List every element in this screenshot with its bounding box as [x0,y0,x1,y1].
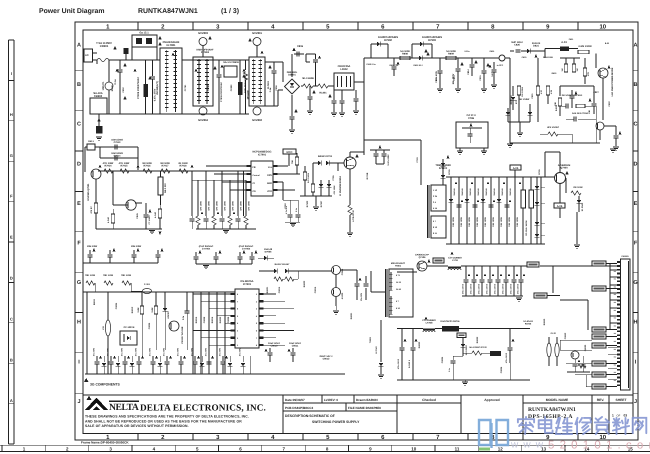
resistor R796 vertical [158,177,163,195]
secondary cap C930 [401,329,403,348]
svg-text:C9015: C9015 [314,286,317,293]
svg-text:PR-23/4L 1N/2W: PR-23/4L 1N/2W [525,220,528,236]
svg-text:I: I [11,71,12,76]
svg-text:RUNTKA847WJN1: RUNTKA847WJN1 [528,407,576,413]
svg-text:1N4148: 1N4148 [264,248,273,251]
svg-text:47u 50V: 47u 50V [148,347,151,356]
capacitor C803 [152,60,154,76]
svg-text:C7913: C7913 [114,141,121,144]
svg-text:470u 16V.3: 470u 16V.3 [477,283,480,294]
svg-text:R9022: R9022 [303,280,306,287]
net label A12V [527,262,539,267]
svg-text:LV.REV: 0: LV.REV: 0 [324,398,338,402]
svg-text:47u 50V: 47u 50V [162,347,165,356]
svg-text:THESE DRAWINGS AND SPECIFICATI: THESE DRAWINGS AND SPECIFICATIONS ARE TH… [85,415,249,419]
secondary cap C933 [452,356,454,360]
svg-text:T9401: T9401 [395,264,402,267]
wire pfc to transformer [364,151,428,153]
svg-text:Power Unit Diagram: Power Unit Diagram [39,8,104,15]
svg-text:470u 16V.3: 470u 16V.3 [461,283,464,294]
svg-text:GE 1/10W: GE 1/10W [519,98,530,101]
svg-text:PCB DS81P/B8CC3: PCB DS81P/B8CC3 [285,406,313,410]
capacitor C812 [439,58,441,70]
svg-text:SALE OF APPARATUS OR DEVICES W: SALE OF APPARATUS OR DEVICES WITHOUT PER… [85,424,189,428]
svg-text:H: H [77,320,81,326]
svg-text:B 7D4R: B 7D4R [375,346,378,354]
svg-text:C831: C831 [531,93,534,99]
svg-text:R9016: R9016 [211,316,214,323]
node terminal E801 [499,55,505,61]
svg-text:C806: C806 [275,85,278,91]
svg-text:C2655: C2655 [341,268,344,275]
svg-text:C815: C815 [479,75,482,81]
wire inter-stage top [182,59,249,61]
varistor RV801 [108,60,110,82]
fusible resistor dark [560,47,569,52]
svg-text:2.2/B 1/10W: 2.2/B 1/10W [578,45,592,48]
svg-text:D802 S1J: D802 S1J [414,64,423,67]
svg-text:R7915: R7915 [120,165,128,168]
svg-text:SHEET: SHEET [616,398,627,402]
svg-text:47u 50V: 47u 50V [120,347,123,356]
secondary resistor R7132 [472,351,482,355]
delta logo triangle [85,398,108,411]
svg-text:NE-1 35V: NE-1 35V [164,183,167,193]
svg-text:(CAP 250VAC: (CAP 250VAC [239,245,254,248]
IC901 left pin wires [193,293,231,295]
svg-text:BAS21 D791: BAS21 D791 [318,155,333,158]
svg-text:CR601: CR601 [100,45,109,48]
wire control rail [98,170,251,172]
net label A-06 [554,203,565,208]
resistor network right of IC790 [303,172,306,180]
svg-text:Drawn:EARON: Drawn:EARON [356,398,378,402]
svg-text:10M 1/2W3: 10M 1/2W3 [111,152,123,155]
svg-text:Q7900: Q7900 [560,167,568,170]
svg-text:DELTA ELECTRONICS, INC.: DELTA ELECTRONICS, INC. [140,403,266,413]
svg-text:(CAP 250VAC: (CAP 250VAC [199,245,214,248]
svg-text:C9009: C9009 [227,316,230,323]
svg-text:470u 16V.3: 470u 16V.3 [397,358,400,369]
svg-text:150K: 150K [151,307,154,313]
svg-text:B: B [77,82,81,88]
svg-text:K 10A60W R2404: K 10A60W R2404 [339,176,342,196]
svg-text:w w w: w w w [510,440,544,451]
svg-text:D9003: D9003 [219,316,222,323]
diode D742 [577,200,582,203]
line filter FLT802A [193,57,213,106]
svg-text:KMH-DF04AHF: KMH-DF04AHF [244,76,247,93]
svg-text:R809: R809 [448,53,454,56]
svg-text:10K 1/8W: 10K 1/8W [492,216,495,227]
wire to bridge bottom [265,105,278,107]
svg-text:B-D 1/4W4: B-D 1/4W4 [307,172,310,183]
connector bus vertical [609,264,611,331]
ground mid-left [96,228,162,230]
svg-text:470u 16V.3: 470u 16V.3 [485,283,488,294]
IC901 right pin wires [264,293,277,295]
next page edge strip [0,444,650,446]
svg-text:FB: FB [253,166,256,169]
svg-text:C814: C814 [467,69,470,75]
svg-text:R9012: R9012 [131,306,134,313]
svg-text:UF4007: UF4007 [167,310,170,318]
resistor R792 [120,169,129,173]
optocoupler PC901 [120,331,137,345]
svg-text:1N4148: 1N4148 [477,188,480,196]
secondary top wire [397,271,417,273]
svg-text:0.1u: 0.1u [269,87,272,92]
outer frame [75,22,638,440]
capacitor C791A loop [100,146,138,148]
svg-text:BA157 BA157: BA157 BA157 [275,263,290,266]
svg-text:Checked: Checked [422,398,436,402]
svg-text:Control: Control [253,174,261,177]
svg-text:SB 1/20W7: SB 1/20W7 [465,344,468,355]
svg-text:470u 16V.3: 470u 16V.3 [505,352,508,363]
extra misc wire stubs [84,60,86,150]
mosfet source resistor R740 [349,169,351,205]
primary network diodes [449,199,454,202]
svg-text:C: C [634,122,638,128]
capacitor CX803 [238,82,243,95]
svg-text:10u 50V: 10u 50V [360,292,363,301]
pfc mosfet Q790 [344,157,356,169]
capacitor C807 polarized [294,53,304,55]
svg-text:470u 16V.3: 470u 16V.3 [493,283,496,294]
svg-text:A1020: A1020 [341,292,344,299]
svg-text:C806: C806 [297,45,304,48]
svg-text:KSC945 Q7901: KSC945 Q7901 [87,183,90,201]
svg-text:C7906 230/275VAC: C7906 230/275VAC [137,77,140,100]
svg-text:D821: D821 [533,45,539,48]
svg-text:10: 10 [411,446,417,451]
ycap row left [92,248,95,251]
svg-text:CO-4JUMBO: CO-4JUMBO [422,319,436,322]
standby mosfet Q7136 [417,261,427,271]
svg-text:0.47u 630V: 0.47u 630V [387,154,390,166]
svg-text:LLD 1N60 POWER-MODE: LLD 1N60 POWER-MODE [611,67,614,96]
svg-text:GCZ802: GCZ802 [252,119,262,122]
svg-text:Ga 12.1: Ga 12.1 [139,32,149,35]
svg-text:R820 1M: R820 1M [510,95,513,104]
svg-text:A-03: A-03 [561,41,567,44]
arrow marks CX801 [123,96,126,100]
wire right aux vertical [509,58,511,143]
svg-text:75K: 75K [291,160,294,164]
svg-text:47u 50V: 47u 50V [92,347,95,356]
svg-text:C9010: C9010 [271,345,278,348]
dark netbox PL-7136 [490,351,501,356]
bottom closing wire aux cluster [510,142,600,144]
svg-text:Q9030: Q9030 [584,344,587,351]
svg-text:1N4148: 1N4148 [509,188,512,196]
svg-text:RUNTKA847WJN1: RUNTKA847WJN1 [138,8,198,15]
svg-text:C7 1/4W3: C7 1/4W3 [148,215,151,225]
capacitor C815 [483,58,485,70]
inner frame [83,30,633,434]
line filter FLT801 [160,48,182,114]
resistor R901 [86,281,95,285]
capacitor C808 to ground [291,95,293,116]
svg-text:47u 50V: 47u 50V [204,347,207,356]
resistor R808 [400,56,410,59]
titleblock row lines [283,402,461,404]
mosfet Q821 [598,68,608,78]
svg-text:C786: C786 [468,117,475,120]
capacitor CY802 [218,60,220,74]
svg-text:D7903: D7903 [428,39,436,42]
svg-text:to PFC: to PFC [497,64,504,67]
mosfet gate wire [338,162,344,164]
standby ground bus [85,373,345,375]
extra connector stub wires [608,346,617,348]
line filter FLT802 [249,57,265,106]
svg-text:0.1u: 0.1u [114,79,117,84]
svg-text:Ct: Ct [253,182,256,185]
wire to bridge top [265,61,283,63]
resistor column R7936 [517,86,520,95]
svg-text:10K 1/8W: 10K 1/8W [452,216,455,227]
svg-text:B-D4R 6: B-D4R 6 [408,359,411,368]
svg-text:47u 50V: 47u 50V [134,347,137,356]
svg-text:470u 16V.3: 470u 16V.3 [509,283,512,294]
svg-text:C832: C832 [608,101,611,107]
svg-text:OF: OF [617,415,621,418]
svg-text:GCZ803: GCZ803 [198,32,208,35]
standby controller IC901 [235,289,259,348]
transistor Q901 [169,321,179,331]
svg-text:1N4148: 1N4148 [453,188,456,196]
resistor R823 [583,68,586,76]
svg-text:UF5 1/10W7: UF5 1/10W7 [547,126,560,129]
net label A-05 secondary [433,258,444,263]
resistor R794 [161,169,170,173]
svg-text:DRV: DRV [267,174,272,177]
wire choke to PFC node [354,81,364,83]
netbox control small [457,333,466,338]
svg-text:D9031: D9031 [350,312,353,319]
svg-text:C: C [10,316,13,321]
svg-text:S1 0N43: S1 0N43 [581,202,584,211]
svg-text:(1 / 3): (1 / 3) [221,8,239,15]
svg-text:470u 16V.3: 470u 16V.3 [469,283,472,294]
choke LY7B [448,268,461,270]
svg-text:ZCD: ZCD [267,190,272,193]
svg-text:R9015: R9015 [195,316,198,323]
svg-text:10K 1/8W: 10K 1/8W [484,216,487,227]
svg-text:G: G [77,280,81,286]
svg-text:A-D4R: A-D4R [154,211,157,218]
svg-text:0.22u: 0.22u [464,50,470,53]
svg-text:47u 50V: 47u 50V [106,347,109,356]
title block top arrow [87,396,92,400]
primary network caps [456,204,461,206]
svg-text:1N4148: 1N4148 [485,188,488,196]
svg-text:J: J [634,399,637,405]
svg-text:5D-9 830B: 5D-9 830B [302,77,314,80]
svg-text:MCC: MCC [287,151,293,154]
title block dividers [282,395,284,434]
signal net boxes column [592,327,606,332]
jumper vertical [105,320,110,336]
svg-text:J: J [77,399,80,405]
transistor Q822 [596,122,604,130]
film capacitor CX802 [144,84,149,97]
resistor R795 [179,169,188,173]
capacitor C829 [571,90,573,95]
svg-text:CS: CS [253,190,257,193]
svg-text:DESCRIPTION:SCHEMATIC OF: DESCRIPTION:SCHEMATIC OF [285,414,335,418]
diode D823 [528,112,533,115]
svg-text:4.7D: 4.7D [540,89,543,94]
mid vertical link [544,152,546,177]
svg-text:47u 50V: 47u 50V [218,347,221,356]
svg-text:RM-1: RM-1 [88,140,94,143]
svg-text:R745: R745 [538,169,541,175]
capacitor C740 pair [375,150,377,153]
wire top rail [109,59,160,61]
svg-text:FLT801: FLT801 [167,44,177,47]
capacitor C816 above NTC [315,54,317,59]
choke LF802 [334,73,354,90]
svg-text:47u 50V: 47u 50V [176,347,179,356]
main transformer T801 [431,185,446,211]
svg-text:47K 1/8W: 47K 1/8W [239,200,242,211]
connector small resistor [578,364,586,368]
svg-text:10: 10 [599,24,606,31]
svg-text:1: 1 [612,414,614,418]
capacitor C792 [145,209,147,214]
IC790 pin wires [206,165,247,167]
svg-text:DE 1/10W7 5A4 40/3: DE 1/10W7 5A4 40/3 [562,94,583,97]
svg-text:T9001: T9001 [369,336,372,343]
svg-text:10M 1/2W: 10M 1/2W [131,245,142,248]
choke LY7B8 [423,331,435,333]
svg-text:10K 1/8W: 10K 1/8W [500,216,503,227]
svg-text:C9012: C9012 [323,358,330,361]
svg-text:CY7905: CY7905 [242,248,251,251]
resistor UF5 R7939 [548,132,558,136]
svg-text:MA 1/20W7 R7132: MA 1/20W7 R7132 [469,346,487,349]
svg-text:DAO/78CP1 D9736: DAO/78CP1 D9736 [441,320,461,323]
svg-text:C795: C795 [332,175,335,181]
svg-text:47K 1/8W: 47K 1/8W [333,185,336,194]
svg-text:5 2 0 1 0 1 . c o m: 5 2 0 1 0 1 . c o m [548,440,650,452]
svg-text:B: B [10,357,13,362]
svg-text:78K 1/4W: 78K 1/4W [103,274,114,277]
svg-text:PB B17 NO-19B: PB B17 NO-19B [181,326,184,343]
svg-text:RL801: RL801 [319,92,327,95]
resistor R797 [94,203,97,213]
extra choke arrows [425,316,428,319]
standby row2 parts [140,306,143,314]
resistor R799 [295,157,298,165]
extra arrows mid [455,181,458,184]
capacitor CY801 pair box [131,47,133,60]
watermark book logo [479,420,508,448]
svg-text:10D471: 10D471 [102,81,105,90]
svg-text:D: D [77,161,81,167]
svg-text:AND SHALL NOT BE REPRODUCED OR: AND SHALL NOT BE REPRODUCED OR USED AS T… [85,419,242,423]
svg-text:1N4148: 1N4148 [493,188,496,196]
svg-text:CY7904: CY7904 [202,248,211,251]
toroid GCZ804 [199,107,207,115]
wire top aux rail [364,57,499,59]
svg-text:J1 J2: J1 J2 [550,332,556,335]
resistor R802 [245,60,247,70]
secondary cap C934 [509,329,511,348]
primary network top bus [446,176,545,178]
svg-text:R9033: R9033 [476,336,479,343]
svg-text:GND: GND [267,182,272,185]
svg-text:A-05: A-05 [513,167,519,170]
caps C9xx pair [269,348,271,352]
svg-text:GCZ801: GCZ801 [252,32,262,35]
sense caps row [191,216,193,218]
diode D821 [527,49,530,54]
svg-text:78K 1/4W: 78K 1/4W [121,274,132,277]
svg-text:R7916: R7916 [143,165,151,168]
svg-text:10M 1/2W: 10M 1/2W [87,245,98,248]
svg-text:1N4148: 1N4148 [469,188,472,196]
svg-text:D745: D745 [448,169,451,175]
thermistor NTC802 [313,85,318,87]
wire standby rail [83,291,235,293]
resistor R798 [158,209,161,218]
diode D822 [506,112,511,115]
svg-text:A: A [77,43,81,49]
snubber resistors [274,277,283,281]
svg-text:470u 16V.3: 470u 16V.3 [501,283,504,294]
svg-text:10K: 10K [588,110,591,114]
svg-text:1M: 1M [576,68,579,71]
svg-text:C7908 230/275VAC: C7908 230/275VAC [220,82,223,102]
svg-text:C: C [77,122,81,128]
svg-text:10K 1/8W: 10K 1/8W [468,216,471,227]
net label A-05 [510,165,521,170]
resistor R793 [143,169,152,173]
svg-text:LF802: LF802 [340,68,348,71]
svg-text:R7918: R7918 [179,165,187,168]
svg-text:D7902: D7902 [384,39,392,42]
jumper P901 [547,343,551,357]
standby diodes bottom row [103,356,105,362]
svg-text:150K: 150K [137,307,140,313]
pfc controller IC790 [251,161,273,196]
sense arrows [201,211,204,214]
svg-text:C9014: C9014 [278,286,281,293]
wire Q902 net [330,270,332,272]
svg-text:Z-D: Z-D [102,326,105,330]
svg-text:5A4 20/3 C7934: 5A4 20/3 C7934 [572,112,589,115]
snubber diode D741 [441,163,446,166]
svg-text:F-301: F-301 [144,283,150,286]
secondary block bottom rail [397,379,530,381]
toroid GCZ802 [253,107,261,115]
extra arrows top emi [116,68,119,71]
extra top band caps right of choke [355,90,357,98]
vertical sense lines [191,171,193,216]
resistor R809 [446,56,456,59]
svg-text:D: D [10,276,13,281]
svg-text:G: G [633,280,637,286]
svg-text:CO-4JUMBO: CO-4JUMBO [448,257,462,260]
capacitor C810 [333,90,335,100]
svg-text:GCZ804: GCZ804 [198,119,208,122]
svg-text:NELTA: NELTA [109,402,139,413]
svg-text:FLT802: FLT802 [267,80,270,89]
